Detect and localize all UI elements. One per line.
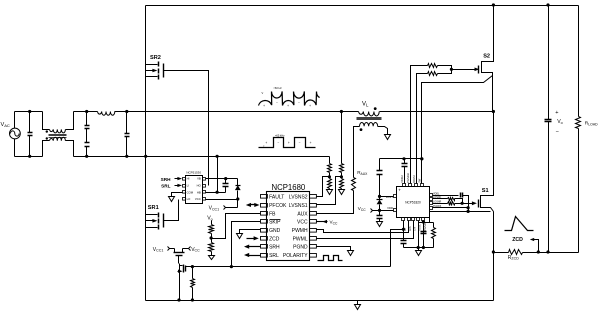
svg-text:VB: VB: [197, 177, 201, 181]
wire HB row: [206, 191, 226, 194]
VL phase dot secondary: [360, 128, 363, 131]
ground LVSNS1: [339, 190, 345, 195]
junction FB tap: [210, 236, 213, 239]
svg-text:VAC: VAC: [1, 122, 10, 128]
wire VSSH riser: [417, 74, 428, 184]
resistor R-fb-upper: [209, 221, 214, 239]
wire AUX: [317, 191, 354, 214]
waveform rectified-sine glyph: [259, 86, 320, 108]
op-amp U2 NCP51530 box: [186, 171, 203, 204]
capacitor C-s1: [433, 193, 470, 212]
inductor VL primary: [359, 112, 380, 116]
junction slow-leg to rail2: [144, 155, 147, 158]
resistor R-reg: [191, 267, 195, 302]
resistor R-lvsns2-lower: [328, 177, 332, 190]
node Vo output label: [555, 110, 563, 135]
wire Q1 gate column: [177, 264, 180, 302]
node POLARITY squarewave: [318, 256, 343, 261]
svg-text:SKIP: SKIP: [269, 220, 281, 226]
svg-text:NCP51530: NCP51530: [186, 171, 201, 175]
svg-text:DRVH: DRVH: [412, 175, 416, 182]
transistor S1: [479, 112, 494, 212]
resistor R-lvsns2-upper: [328, 164, 332, 177]
wire rail1 after choke: [74, 111, 98, 113]
wire pinD down: [418, 221, 420, 248]
AC source VAC: [1, 122, 21, 139]
svg-text:RLOAD: RLOAD: [585, 120, 598, 126]
capacitor C-boot U3: [377, 159, 383, 197]
wire VAC to rails: [14, 112, 16, 157]
wire SW riser kelvin: [420, 76, 492, 161]
svg-text:V: V: [262, 91, 264, 95]
resistor RLOAD: [576, 6, 599, 253]
junction LVSNS2 tap: [328, 175, 331, 178]
ground FB divider: [209, 256, 215, 260]
svg-text:HI: HI: [187, 177, 190, 181]
capacitor X3: [125, 110, 130, 158]
wire PGND3 row: [433, 207, 469, 209]
U2 pin labels: [187, 177, 202, 201]
wire LVSNS2: [317, 177, 330, 197]
wire top DC+ frame: [146, 5, 579, 7]
wire kelvin to node line: [429, 212, 431, 223]
common-mode choke L1 top winding: [43, 112, 74, 133]
wire output rail: [494, 252, 579, 254]
U1 pin boxes: [261, 195, 317, 258]
svg-text:VCC: VCC: [358, 206, 366, 212]
wire GND pin to ground: [237, 230, 261, 239]
resistor R-g2b: [428, 70, 452, 76]
svg-text:+: +: [265, 141, 267, 145]
svg-text:VCC: VCC: [297, 220, 308, 226]
svg-text:PGNDH: PGNDH: [406, 173, 410, 182]
svg-text:PWML: PWML: [293, 236, 308, 242]
svg-text:−: −: [299, 141, 301, 145]
svg-text:AUX: AUX: [297, 211, 308, 217]
svg-text:+: +: [287, 104, 289, 108]
transistor SR1: [146, 213, 164, 230]
wire DT node: [391, 221, 406, 267]
ground U3 network: [416, 248, 422, 256]
svg-text:SR2: SR2: [150, 55, 161, 61]
wire PGND to ground: [317, 247, 354, 256]
transistor SR2: [146, 62, 164, 80]
wire S2 gate arrow: [452, 68, 480, 72]
wire Q2 gate node line: [186, 266, 193, 268]
waveform squarewave glyph: [259, 133, 316, 148]
svg-text:+: +: [309, 104, 311, 108]
wire pinE down: [422, 220, 425, 249]
wire bottom frame: [146, 300, 494, 302]
svg-text:S1: S1: [482, 188, 489, 194]
wire DRVH riser: [411, 66, 428, 184]
wire S1 kelvin line: [430, 210, 491, 213]
wire SR1 gate to LO: [164, 200, 179, 221]
node Vo label: [207, 215, 213, 221]
capacitor C-sw: [402, 159, 408, 184]
wire COM to ground: [169, 193, 183, 202]
wire LVSNS1: [317, 177, 342, 205]
choke phase dots: [46, 130, 48, 139]
wire VL sec left to RAUX: [354, 127, 360, 178]
transistor S2: [479, 6, 494, 75]
wire S1 gate arrow: [463, 201, 477, 205]
svg-text:−: −: [556, 129, 559, 135]
node SRH output arrow: [244, 245, 261, 249]
node line y266: [191, 265, 391, 268]
svg-text:VDDL: VDDL: [433, 192, 440, 195]
filter inductor L2: [98, 112, 115, 116]
svg-text:HIN: HIN: [408, 226, 412, 231]
node VCC feed: [183, 247, 201, 253]
resistor R-g1b: [448, 202, 463, 206]
resistor R-lvsns1-lower: [340, 177, 344, 190]
wire PWML: [317, 221, 414, 239]
wire rail1 to VL: [115, 111, 359, 113]
svg-text:ZCD: ZCD: [269, 236, 280, 242]
node SRL input: [161, 184, 182, 189]
wire SR2 gate to HO: [164, 71, 209, 186]
wire slow-leg column: [145, 6, 147, 301]
svg-text:−: −: [277, 141, 279, 145]
wire PWMH: [317, 221, 409, 233]
svg-text:−: −: [298, 101, 300, 105]
svg-text:≈65 kHz: ≈65 kHz: [275, 133, 285, 137]
svg-text:GND: GND: [269, 228, 281, 234]
resistor RZCD: [508, 250, 523, 261]
wire rail1 VL to fast leg: [380, 111, 494, 113]
capacitor C-out: [545, 6, 552, 254]
node SRL output arrow: [244, 253, 261, 257]
svg-text:COM: COM: [187, 190, 194, 194]
svg-text:LI: LI: [187, 184, 190, 188]
op-amp U3 NCP51820 box: [397, 187, 430, 218]
resistor R-lvsns1-upper: [340, 164, 344, 177]
wire S1 source to bottom frame: [493, 253, 495, 301]
op-amp U1 NCP1680 box: [267, 183, 310, 261]
junction LVSNS1 tap: [340, 175, 343, 178]
resistor RAUX: [352, 170, 369, 191]
svg-text:+: +: [398, 188, 401, 193]
wire VL sec right arrow: [378, 127, 391, 140]
transistor Q2: [178, 265, 186, 273]
capacitor X2a upper: [85, 110, 90, 129]
wire S1 source down: [492, 212, 495, 254]
svg-text:RAUX: RAUX: [357, 170, 368, 176]
wire rail1 input segment: [15, 111, 43, 113]
transistor SR2 label: [150, 55, 161, 61]
node VCC at U1: [317, 220, 338, 226]
resistor R-fb-lower: [209, 239, 214, 256]
wire pgnd rail: [404, 246, 434, 249]
transistor S1 label: [482, 188, 489, 194]
wire rail2 turn to divider: [329, 157, 331, 164]
wire HB to rail2: [216, 155, 219, 193]
svg-text:+: +: [555, 110, 558, 116]
svg-text:S2: S2: [483, 54, 490, 60]
VL phase dot primary: [374, 107, 377, 110]
U1 pin labels: [269, 195, 308, 259]
U3 pin boxes: [394, 184, 433, 221]
inductor VL secondary: [359, 122, 377, 126]
svg-text:+: +: [288, 141, 290, 145]
node ZCD input arrow: [247, 236, 259, 240]
wire node line 222: [419, 222, 434, 224]
node SRH input: [161, 177, 182, 182]
capacitor C-dt: [401, 230, 407, 248]
resistor R-dt: [432, 223, 436, 248]
wire VSSL row: [433, 203, 448, 205]
wire S2 source to rail1: [492, 75, 495, 114]
ground at bottom frame: [355, 301, 361, 310]
wire DRVL row: [433, 198, 448, 200]
wire SW to pin4: [421, 159, 423, 184]
svg-text:SRH: SRH: [269, 245, 280, 251]
svg-text:POLARITY: POLARITY: [283, 253, 308, 259]
ground C-vdd: [377, 222, 383, 227]
wire SKIP: [232, 222, 261, 267]
U3 pin labels: [386, 173, 442, 230]
svg-text:VBST: VBST: [386, 195, 394, 199]
svg-text:LVSNS1: LVSNS1: [289, 203, 308, 209]
svg-text:SR1: SR1: [148, 205, 159, 211]
node PFCOK bidir arrow: [246, 203, 260, 207]
resistor R-g2a: [428, 64, 452, 70]
node ZCD tap: [530, 238, 540, 254]
svg-text:VCC: VCC: [195, 197, 201, 201]
VL core: [357, 118, 382, 120]
choke core: [49, 135, 67, 138]
svg-text:+: +: [310, 141, 312, 145]
svg-text:VDDH: VDDH: [400, 175, 404, 182]
junction output cap top: [546, 3, 549, 6]
transistor S2 label: [483, 54, 490, 60]
ground LVSNS2: [327, 190, 333, 195]
capacitor X2b lower: [85, 129, 90, 158]
svg-text:+: +: [263, 104, 265, 108]
svg-text:HB: HB: [197, 190, 201, 194]
svg-text:SRL: SRL: [161, 184, 171, 189]
resistor R-g1a: [448, 198, 463, 204]
svg-text:SRH: SRH: [161, 177, 172, 182]
capacitor C-pg: [421, 232, 427, 234]
junction S2 gate node: [450, 68, 453, 71]
wire VCC row: [206, 197, 240, 200]
diode D-boot U2: [235, 179, 241, 208]
wire Q2 drain to node: [183, 265, 185, 267]
svg-text:SRL: SRL: [269, 253, 279, 259]
ZCD waveform glyph: [505, 217, 534, 231]
svg-text:FB: FB: [269, 211, 276, 217]
svg-text:LIN: LIN: [413, 227, 417, 231]
U2 pin boxes: [183, 178, 206, 201]
diode D-boot U3: [377, 197, 383, 211]
svg-text:≈60 Hz: ≈60 Hz: [274, 86, 283, 90]
capacitor C-boot U2: [223, 179, 229, 193]
svg-text:FAULT: FAULT: [269, 195, 284, 201]
wire VBST row: [378, 195, 394, 198]
junction S2 drain at top: [492, 3, 495, 6]
wire rail1 tap to divider: [340, 110, 343, 164]
svg-text:ZCD: ZCD: [512, 237, 523, 243]
transistor SR1 label: [148, 205, 159, 211]
svg-text:LVSNS2: LVSNS2: [289, 195, 308, 201]
svg-text:NCP51820: NCP51820: [405, 200, 421, 204]
capacitor X1 across AC input: [28, 110, 33, 158]
common-mode choke L1 bottom winding: [43, 137, 74, 156]
svg-text:PGND: PGND: [293, 245, 308, 251]
node VCC1 to U2: [209, 206, 238, 212]
node VCC to U3 VDD: [358, 206, 394, 213]
wire switch-node line: [380, 157, 424, 160]
wire VB row: [206, 177, 238, 180]
wire FB to pin: [212, 214, 261, 239]
node ZCD label: [512, 237, 523, 243]
wire rail2 after choke: [74, 156, 330, 158]
inductor VL label: [362, 101, 369, 107]
svg-text:PWMH: PWMH: [292, 228, 308, 234]
transistor Q1 pass: [174, 249, 185, 264]
svg-text:VCC: VCC: [330, 220, 338, 226]
wire rail2 input segment: [15, 156, 43, 158]
svg-text:−: −: [276, 101, 278, 105]
svg-text:PFCOK: PFCOK: [269, 203, 287, 209]
svg-text:VDD: VDD: [387, 206, 393, 210]
node VCC1 feed: [153, 247, 175, 253]
svg-text:VL: VL: [362, 101, 369, 107]
junction S1 gate node: [461, 202, 464, 205]
capacitor C-vdd: [377, 211, 383, 222]
svg-text:NCP1680: NCP1680: [271, 183, 305, 192]
